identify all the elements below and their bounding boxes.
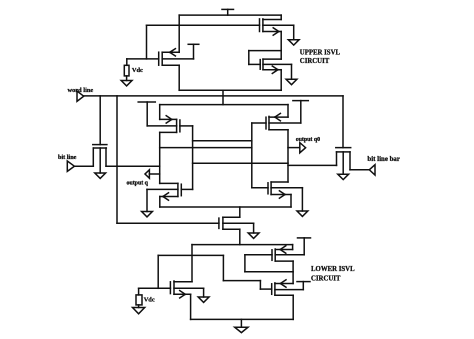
wire gate net V2 [251,123,253,188]
label output q [127,180,149,186]
wire VDD top rail [179,14,281,16]
power VDD symbol T2 (MP1 bulk) [188,44,199,59]
port bit line bar [369,165,375,175]
wire lower top rail [192,244,293,246]
svg-text:bit line bar: bit line bar [367,156,400,163]
port output q [145,170,160,178]
wire bit line to pass transistor [74,165,93,167]
pmos MP4 lower upper-right [245,245,304,284]
power VDD symbol T6 (MP5 bulk) [297,282,310,290]
nmos MN4 latch-left [147,183,193,207]
power VDD symbol T1 [222,9,234,15]
ground G2 (MN1 bulk) [288,25,299,45]
svg-text:Vdc: Vdc [132,67,143,74]
label UPPER ISVL CIRCUIT [300,50,341,66]
svg-text:word line: word line [68,87,94,94]
port word line [77,91,84,101]
label word line [68,87,94,94]
power VDD symbol T4 (MP2 bulk) [138,102,155,126]
wire cross couple HC [193,162,288,164]
ground G11 (lower rail) [235,319,248,332]
ground G3 (MN2 bulk) [286,64,297,84]
wire lower bottom rail [191,318,294,320]
label LOWER ISVL CIRCUIT [311,266,355,282]
wire latch top rail H3 [160,104,288,106]
pmos MP2 latch-left [147,105,192,133]
port output q0 [288,143,306,153]
svg-text:Vdc: Vdc [144,297,155,304]
pmos MP5 lower diode-connected [260,280,303,320]
ground G1 (under Vdc upper) [121,81,132,86]
ground G6 (MN4 bulk) [142,189,153,217]
wire lower gate loop [158,255,260,289]
port bit line [67,161,74,171]
svg-text:CIRCUIT: CIRCUIT [300,58,330,65]
wire cross couple HB [160,147,252,149]
power VDD symbol T3 (MP3 bulk) [293,101,308,123]
nmos MN2 diode-connected [249,51,292,91]
label Vdc upper [132,67,143,74]
wire latch foot [160,206,291,208]
wire upper virtual rail [179,89,281,91]
wire to bit line bar port [350,169,369,171]
power VDD symbol T5 (MP4 bulk) [298,238,311,255]
pmos MP3 latch-right [252,105,301,130]
wire pass-left to node N1 [106,165,160,167]
ground G5 (MN6 bulk) [338,174,349,179]
source Vdc V1 upper [124,59,129,81]
node N2 vertical [287,130,289,182]
nmos MN3 pass-left [93,96,107,173]
svg-text:LOWER ISVL: LOWER ISVL [311,266,355,273]
svg-text:output q: output q [127,180,149,186]
svg-text:UPPER ISVL: UPPER ISVL [300,50,341,57]
svg-text:output q0: output q0 [296,137,320,143]
svg-text:bit line: bit line [58,154,77,161]
label output q0 [296,137,320,143]
ground G8 (MN7 bulk) [248,223,259,238]
label bit line bar [367,156,400,163]
wire rail drop [222,90,224,104]
pmos MP1 upper-left [127,15,194,90]
label Vdc lower [144,297,155,304]
nmos MN1 upper-right [260,15,294,59]
ground G10 (MN8 bulk) [198,288,209,302]
node N1 vertical [159,132,161,183]
source Vdc V2 lower [136,288,142,307]
label bit line [58,154,77,161]
ground G7 (MN5 bulk) [297,188,308,217]
ground G4 (MN3 bulk) [95,173,106,178]
nmos MN8 lower-left [139,245,204,320]
wire bitbar from N2 [288,164,337,166]
wire gate net V1 [192,126,194,189]
nmos MN6 pass-right [336,96,351,174]
wire cross couple HA [193,140,252,142]
wire word line [83,95,343,97]
nmos MN5 latch-right [252,182,303,207]
nmos MN7 sleep switch [117,96,254,245]
svg-text:CIRCUIT: CIRCUIT [311,276,341,283]
wire gate link upper [147,25,260,59]
ground G9 (under Vdc lower) [133,308,145,314]
